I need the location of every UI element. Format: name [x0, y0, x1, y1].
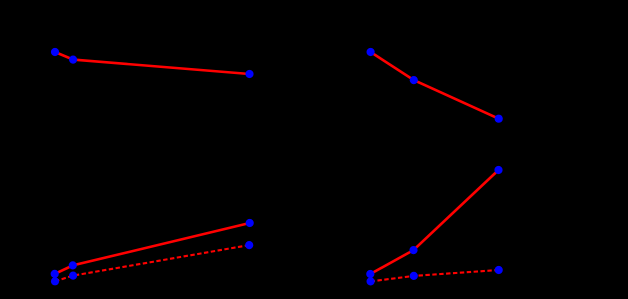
line: bottom-left dashed series [55, 245, 249, 281]
line: bottom-left solid series [55, 223, 250, 274]
line: bottom-right solid series [370, 170, 498, 274]
markers: top-left series [51, 48, 254, 78]
markers: top-right series [367, 48, 503, 123]
markers: bottom-right dashed series [367, 266, 503, 286]
line: top-right solid series [371, 52, 499, 119]
line: bottom-right dashed series [371, 270, 499, 281]
line: top-left solid series [55, 52, 250, 74]
markers: bottom-right solid series [366, 166, 502, 278]
markers: bottom-left solid series [51, 219, 254, 278]
markers: bottom-left dashed series [51, 241, 253, 285]
